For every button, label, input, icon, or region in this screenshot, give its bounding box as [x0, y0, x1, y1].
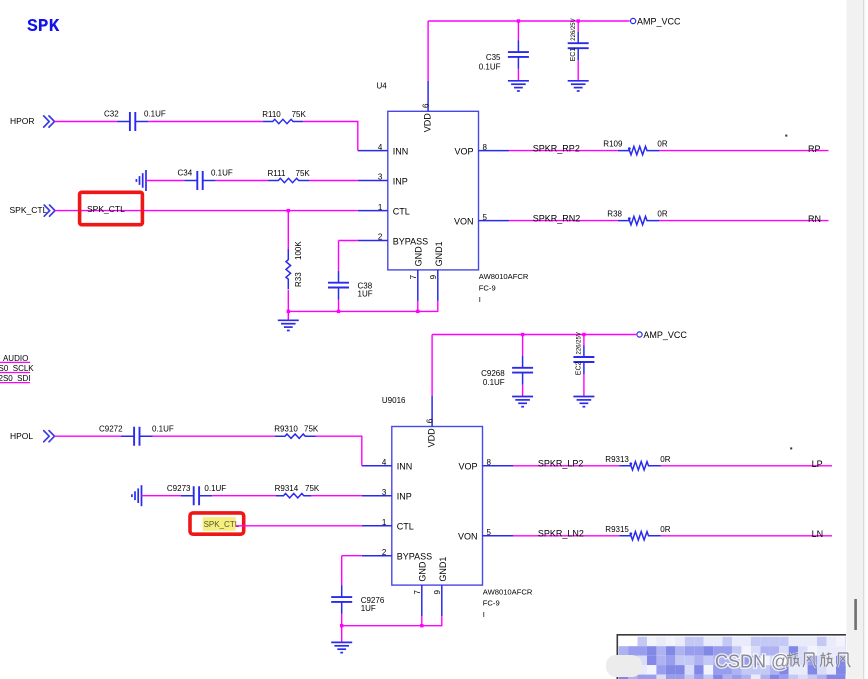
svg-text:VON: VON	[458, 532, 478, 542]
svg-text:8: 8	[487, 458, 492, 467]
pin 6 (VDD) lead	[431, 396, 433, 427]
svg-text:R9315: R9315	[605, 525, 629, 534]
svg-text:INN: INN	[397, 462, 413, 472]
electrolytic capacitor EC2 226/25V	[573, 332, 594, 375]
part type label AW8010AFCR FC-9 I	[479, 272, 529, 304]
svg-text:CSDN @: CSDN @	[715, 652, 789, 672]
svg-text:0R: 0R	[660, 455, 670, 464]
svg-text:7: 7	[409, 274, 418, 279]
svg-text:INP: INP	[397, 492, 412, 502]
svg-text:GND: GND	[417, 561, 427, 582]
svg-text:R9314: R9314	[275, 484, 299, 493]
svg-text:VOP: VOP	[454, 147, 473, 157]
svg-text:9: 9	[429, 274, 438, 279]
svg-text:8: 8	[483, 143, 488, 152]
svg-text:0R: 0R	[660, 525, 670, 534]
pin 5 stub	[483, 535, 514, 537]
audio amplifier IC U9016 AW8010AFCR	[392, 427, 483, 586]
capacitor C9272 0.1UF	[99, 424, 174, 445]
part type label AW8010AFCR FC-9 I	[483, 587, 533, 619]
port arrow SPK_CTL	[44, 205, 55, 216]
svg-text:LP: LP	[812, 459, 823, 469]
electrolytic capacitor EC1 226/25V	[568, 18, 589, 61]
wire ground to C9273	[142, 495, 181, 497]
svg-text:4: 4	[382, 458, 387, 467]
wire down to bypass cap	[341, 556, 343, 585]
wire BYPASS cap to pin 2 BYPASS	[342, 555, 362, 557]
wire pin to R9315	[513, 535, 620, 537]
audio amplifier IC U4 AW8010AFCR	[388, 111, 479, 270]
pin 3 stub	[358, 180, 388, 182]
resistor R9315 0R	[605, 525, 670, 540]
resistor R109 0R	[603, 140, 668, 155]
svg-text:VDD: VDD	[423, 113, 433, 133]
svg-text:C9272: C9272	[99, 424, 123, 433]
svg-text:INP: INP	[393, 176, 408, 186]
pin 8 stub	[479, 150, 510, 152]
wire BYPASS cap to pin 2 BYPASS	[339, 240, 358, 242]
resistor R9310 75K	[274, 425, 319, 439]
svg-text:INN: INN	[393, 147, 409, 157]
svg-text:S0_SCLK: S0_SCLK	[0, 364, 34, 373]
junction rail / C9268	[521, 333, 524, 336]
svg-text:GND1: GND1	[434, 241, 444, 266]
svg-text:_AUDIO: _AUDIO	[0, 354, 28, 363]
svg-text:2: 2	[378, 233, 383, 242]
watermark CJK glyphs (approximated)	[787, 653, 851, 668]
stray dot (top)	[785, 135, 787, 137]
svg-text:0.1UF: 0.1UF	[204, 484, 226, 493]
wire HPOR to C32	[55, 121, 117, 123]
svg-text:R9310: R9310	[274, 425, 298, 434]
svg-text:R38: R38	[607, 210, 622, 219]
svg-text:HPOR: HPOR	[10, 116, 35, 126]
svg-text:1: 1	[382, 518, 387, 527]
capacitor C38 1UF	[328, 271, 373, 300]
wire rail to ground	[341, 626, 343, 643]
svg-text:0.1UF: 0.1UF	[211, 169, 233, 178]
wire EC2 to ground	[583, 374, 585, 397]
net label S0_SCLK (clipped)	[0, 364, 34, 373]
svg-text:AMP_VCC: AMP_VCC	[637, 17, 681, 27]
junction bypass cap / rail	[337, 310, 340, 313]
svg-text:0R: 0R	[657, 140, 667, 149]
svg-text:CTL: CTL	[393, 207, 410, 217]
svg-text:100K: 100K	[294, 241, 303, 260]
wire ground to C34	[146, 180, 184, 182]
svg-text:0.1UF: 0.1UF	[483, 378, 505, 387]
junction rail / C35	[517, 19, 520, 22]
svg-text:75K: 75K	[304, 425, 319, 434]
junction rail / pin 7	[420, 624, 423, 627]
resistor R9314 75K	[275, 484, 320, 498]
pin 7 lead	[417, 270, 419, 301]
svg-text:R33: R33	[294, 272, 303, 287]
svg-text:75K: 75K	[296, 169, 311, 178]
wire R109 to port RP	[659, 150, 829, 152]
svg-text:FC-9: FC-9	[483, 599, 500, 608]
ground under EC2	[573, 397, 594, 407]
svg-text:75K: 75K	[292, 110, 307, 119]
wire SPK_CTL to pin 1 CTL	[236, 525, 362, 527]
wire C35 to ground	[517, 69, 519, 81]
gnd rail wire to pin 9	[288, 301, 438, 312]
svg-text:SPKR_LN2: SPKR_LN2	[538, 529, 584, 539]
ground (rotated) at C9273	[132, 485, 142, 506]
wire R9314 to pin 3 INP	[311, 495, 361, 497]
wire SPK_CTL to pin 1 CTL	[55, 210, 358, 212]
net label 2S0_SDI (clipped)	[0, 374, 31, 383]
svg-text:C9268: C9268	[481, 369, 505, 378]
svg-text:I: I	[479, 295, 481, 304]
wire pin to R9313	[513, 465, 620, 467]
junction rail / pin 7	[416, 310, 419, 313]
title block border	[617, 635, 846, 679]
svg-text:R110: R110	[262, 110, 281, 119]
resistor R38 0R	[607, 210, 668, 225]
svg-text:3: 3	[378, 173, 383, 182]
ground (rotated) at C34	[136, 170, 146, 191]
svg-text:I: I	[483, 610, 485, 619]
svg-text:AW8010AFCR: AW8010AFCR	[479, 272, 529, 281]
svg-text:3: 3	[382, 488, 387, 497]
AMP_VCC rail wire	[428, 20, 630, 22]
wire C9272 to R9310	[153, 435, 275, 437]
svg-text:FC-9: FC-9	[479, 284, 496, 293]
junction rail / EC1	[577, 19, 580, 22]
pin 4 stub	[362, 465, 392, 467]
svg-text:BYPASS: BYPASS	[397, 552, 432, 562]
censored mosaic region	[619, 637, 846, 679]
svg-text:LN: LN	[812, 529, 824, 539]
svg-text:C9273: C9273	[167, 484, 191, 493]
svg-text:0.1UF: 0.1UF	[479, 63, 501, 72]
wire rail to pin 7	[417, 301, 419, 312]
svg-text:SPK_CTL: SPK_CTL	[204, 520, 240, 529]
pin 5 stub	[479, 220, 510, 222]
ground (top circuit)	[278, 320, 299, 330]
gnd rail wire to pin 9	[342, 616, 442, 626]
svg-text:2S0_SDI: 2S0_SDI	[0, 374, 31, 383]
watermark pill (grey)	[606, 655, 642, 677]
pin 7 lead	[421, 585, 423, 616]
svg-text:226/25V: 226/25V	[571, 18, 577, 40]
svg-text:SPKR_RN2: SPKR_RN2	[533, 214, 581, 224]
wire down to bypass cap	[338, 241, 340, 271]
svg-text:R111: R111	[268, 169, 286, 178]
wire rail down to EC1	[577, 21, 579, 32]
svg-text:6: 6	[425, 418, 434, 423]
svg-text:226/25V: 226/25V	[577, 332, 583, 354]
svg-text:R109: R109	[603, 140, 623, 149]
svg-text:2: 2	[382, 548, 387, 557]
svg-text:5: 5	[487, 528, 492, 537]
wire HPOL to C9272	[55, 435, 122, 437]
wire rail down to C9268	[522, 335, 524, 356]
svg-text:GND1: GND1	[438, 557, 448, 582]
wire EC1 to ground	[577, 60, 579, 81]
wire R111 to pin 3 INP	[309, 180, 358, 182]
wire rail to ground	[287, 311, 289, 320]
svg-text:EC1: EC1	[570, 48, 577, 62]
svg-text:HPOL: HPOL	[10, 431, 33, 441]
svg-text:VOP: VOP	[458, 462, 477, 472]
svg-text:AMP_VCC: AMP_VCC	[643, 330, 687, 340]
resistor R110 75K	[262, 110, 306, 124]
port arrow HPOL	[44, 431, 55, 442]
svg-text:C34: C34	[178, 169, 193, 178]
wire rail down to EC2	[583, 335, 585, 346]
svg-text:SPK_CTL: SPK_CTL	[10, 205, 48, 215]
scrollbar track	[847, 0, 864, 679]
resistor R33 100K (vertical)	[286, 241, 303, 290]
pin 6 (VDD) lead	[427, 81, 429, 112]
net label SPK_CTL (red box, yellow highlight)	[190, 513, 244, 534]
svg-text:0R: 0R	[657, 210, 667, 219]
wire CTL net down to R33	[287, 211, 289, 249]
pin 2 stub	[362, 555, 392, 557]
svg-text:C32: C32	[104, 110, 119, 119]
junction rail / EC2	[582, 333, 585, 336]
wire bypass cap to gnd rail	[338, 300, 340, 312]
capacitor C34 0.1UF	[178, 169, 233, 190]
wire R110 to pin 4 INN	[303, 122, 358, 151]
wire R9315 to port LN	[661, 535, 833, 537]
svg-text:SPK_CTL: SPK_CTL	[87, 204, 125, 214]
wire R38 to port RN	[659, 220, 829, 222]
junction bypass cap / rail	[340, 624, 343, 627]
svg-text:AW8010AFCR: AW8010AFCR	[483, 587, 533, 596]
capacitor C9268 0.1UF	[481, 356, 533, 387]
svg-text:5: 5	[483, 213, 488, 222]
net label _AUDIO (clipped)	[0, 354, 30, 363]
svg-text:SPKR_RP2: SPKR_RP2	[533, 144, 580, 154]
svg-text:C35: C35	[486, 53, 501, 62]
stray dot (bottom)	[790, 447, 792, 449]
resistor R111 75K	[268, 169, 311, 183]
wire pin to R38	[509, 220, 618, 222]
svg-text:0.1UF: 0.1UF	[152, 424, 174, 433]
svg-text:75K: 75K	[305, 484, 320, 493]
wire pin to R109	[509, 150, 618, 152]
wire rail down to C35	[517, 21, 519, 40]
wire bypass cap to gnd rail	[341, 614, 343, 626]
ground under C9268	[512, 397, 533, 407]
pin 4 stub	[358, 150, 388, 152]
pin 9 lead	[441, 585, 443, 616]
junction on CTL net	[287, 209, 290, 212]
pin 1 stub	[358, 210, 388, 212]
svg-text:CTL: CTL	[397, 522, 414, 532]
pin 2 stub	[358, 240, 388, 242]
wire R9310 to pin 4 INN	[316, 436, 362, 466]
ground (bottom circuit)	[331, 642, 352, 652]
capacitor C9273 0.1UF	[167, 484, 226, 505]
svg-text:RP: RP	[808, 144, 821, 154]
svg-text:R9313: R9313	[605, 455, 629, 464]
pin 9 lead	[437, 270, 439, 301]
svg-text:9: 9	[433, 590, 442, 595]
wire C9273 to R9314	[212, 495, 276, 497]
wire C9268 to ground	[522, 385, 524, 397]
power node AMP_VCC	[637, 330, 688, 340]
wire R33 to gnd rail	[287, 290, 289, 311]
svg-text:GND: GND	[413, 246, 423, 267]
ground under EC1	[568, 81, 589, 91]
AMP_VCC rail wire	[432, 334, 636, 336]
capacitor C35 0.1UF	[479, 40, 529, 71]
svg-text:BYPASS: BYPASS	[393, 236, 428, 246]
pin 1 stub	[362, 525, 392, 527]
ground under C35	[508, 81, 529, 91]
wire AMP_VCC rail down to pin 6	[431, 335, 433, 397]
wire R9313 to port LP	[661, 465, 833, 467]
svg-text:U9016: U9016	[382, 396, 406, 405]
resistor R9313 0R	[605, 455, 670, 470]
svg-text:U4: U4	[377, 82, 388, 91]
svg-text:EC2: EC2	[576, 361, 583, 375]
junction R33 / rail	[287, 310, 290, 313]
port arrow HPOR	[44, 116, 55, 127]
svg-text:1: 1	[378, 203, 383, 212]
svg-text:VON: VON	[454, 217, 474, 227]
pin 3 stub	[362, 495, 392, 497]
svg-text:1UF: 1UF	[358, 290, 373, 299]
svg-text:1UF: 1UF	[361, 604, 376, 613]
svg-text:SPK: SPK	[27, 17, 60, 37]
wire C34 to R111	[216, 180, 268, 182]
svg-text:0.1UF: 0.1UF	[144, 110, 166, 119]
svg-text:6: 6	[421, 103, 430, 108]
capacitor C9276 1UF	[331, 585, 385, 614]
scrollbar thumb	[854, 599, 857, 630]
wire AMP_VCC rail down to pin 6	[427, 21, 429, 81]
wire rail to pin 7	[421, 616, 423, 626]
svg-text:RN: RN	[808, 214, 821, 224]
power node AMP_VCC	[631, 17, 682, 27]
svg-text:7: 7	[413, 590, 422, 595]
svg-text:SPKR_LP2: SPKR_LP2	[538, 459, 584, 469]
net label SPK_CTL (red highlight box)	[80, 192, 143, 224]
capacitor C32 0.1UF	[104, 110, 166, 131]
wire C32 to R110	[148, 121, 262, 123]
svg-text:VDD: VDD	[427, 428, 437, 448]
pin 8 stub	[483, 465, 514, 467]
svg-text:4: 4	[378, 143, 383, 152]
